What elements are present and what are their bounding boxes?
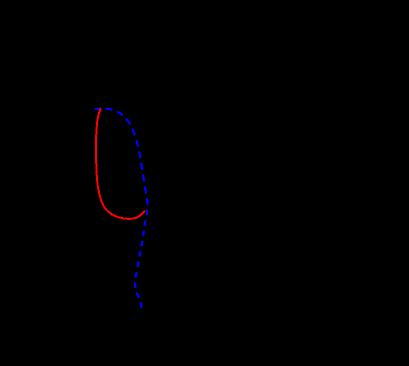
blue dashed curve (spinodal), upper arc	[95, 109, 148, 205]
blue dashed curve (spinodal), lower branch	[135, 205, 148, 308]
red solid curve (binodal)	[96, 108, 145, 219]
